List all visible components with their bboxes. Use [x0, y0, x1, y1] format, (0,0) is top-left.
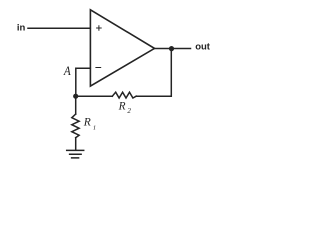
wire input to + pin: [28, 27, 90, 29]
wire node A to R1: [75, 96, 77, 114]
ground: [67, 150, 84, 158]
wire R2 to feedback corner: [136, 49, 171, 97]
wire - pin to node A: [76, 68, 91, 96]
svg-text:A: A: [63, 64, 71, 78]
svg-text:out: out: [195, 41, 211, 52]
wire op-amp output: [155, 48, 191, 50]
wire R1 to ground: [75, 138, 77, 150]
wire node A to R2: [76, 95, 113, 97]
node A junction: [73, 94, 78, 99]
resistor R2: [112, 92, 136, 98]
svg-text:R: R: [83, 117, 91, 129]
output junction: [169, 46, 174, 51]
svg-text:in: in: [17, 23, 26, 34]
svg-text:2: 2: [127, 107, 131, 115]
pin - (inverting input): [96, 67, 101, 69]
svg-text:1: 1: [93, 124, 96, 131]
pin + (non-inverting input): [97, 26, 102, 31]
svg-text:R: R: [118, 101, 126, 113]
resistor R1: [72, 114, 79, 138]
op-amp U1: [90, 10, 154, 86]
